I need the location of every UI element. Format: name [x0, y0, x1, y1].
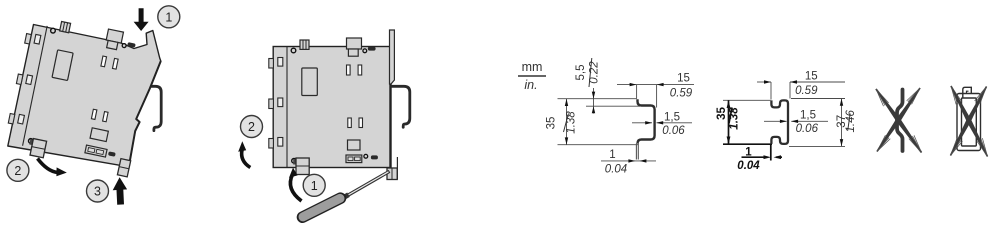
svg-text:2: 2 [248, 120, 255, 134]
svg-text:0.06: 0.06 [796, 123, 819, 135]
arrow up (step 3) [113, 177, 127, 205]
module details (tilted) [3, 13, 140, 172]
svg-text:1.46: 1.46 [845, 110, 857, 133]
curved arrow (step 1) [290, 175, 301, 202]
svg-text:2: 2 [14, 164, 21, 178]
rail profile 1 [638, 99, 655, 143]
extension lines [558, 98, 637, 100]
svg-text:1,5: 1,5 [800, 110, 816, 122]
svg-text:0.59: 0.59 [670, 88, 693, 100]
module details (middle) [269, 38, 378, 175]
tower (middle) [390, 30, 395, 84]
circle 1 [158, 6, 180, 28]
svg-text:1: 1 [165, 10, 172, 24]
svg-text:1: 1 [609, 149, 615, 161]
circle 2 [241, 116, 263, 138]
arrows drawing 2 [727, 80, 844, 159]
svg-text:15: 15 [677, 73, 690, 85]
connector recess (left) [90, 128, 108, 142]
texts drawing 2 [795, 70, 857, 135]
curved arrow (step 2) [242, 150, 251, 168]
DIN rail (left figure) [140, 86, 162, 130]
svg-text:1.38: 1.38 [566, 111, 578, 134]
svg-text:1,5: 1,5 [664, 111, 680, 123]
connector recess (middle) [348, 140, 361, 150]
screwdriver [303, 171, 390, 217]
svg-text:0.59: 0.59 [795, 85, 818, 97]
arrows drawing 1 [565, 83, 664, 163]
module silhouette (tilted) [8, 25, 161, 167]
svg-text:1: 1 [745, 146, 752, 158]
svg-text:15: 15 [805, 70, 818, 82]
svg-text:mm: mm [522, 60, 543, 74]
rail line below hook [396, 157, 398, 180]
svg-text:0.04: 0.04 [737, 160, 760, 172]
svg-text:3: 3 [94, 185, 101, 199]
svg-text:0.06: 0.06 [662, 125, 685, 137]
circle 2 [7, 159, 29, 181]
rear edge thick overlay [129, 61, 161, 167]
module body (middle) [273, 47, 391, 168]
svg-text:35: 35 [716, 107, 728, 120]
svg-text:in.: in. [524, 78, 537, 92]
svg-text:0.04: 0.04 [605, 163, 627, 175]
circle 1 [303, 174, 325, 196]
svg-text:35: 35 [546, 117, 558, 130]
circle 3 [87, 180, 109, 202]
svg-text:5,5: 5,5 [575, 65, 587, 81]
DIN rail (middle figure) [392, 86, 410, 127]
curved arrow (step 2) [38, 159, 58, 173]
rear edge thick [389, 84, 391, 167]
rail profile 2 [771, 100, 788, 143]
bottom strip (left) [85, 145, 107, 157]
bottom-right latch (middle) [387, 168, 397, 180]
bottom-right latch (left figure) [117, 159, 130, 177]
arrow down (step 1) [134, 8, 149, 31]
bottom strip (middle) [346, 155, 362, 163]
texts drawing 1 [546, 61, 693, 176]
dim lines [566, 99, 568, 145]
svg-text:1: 1 [311, 179, 318, 193]
